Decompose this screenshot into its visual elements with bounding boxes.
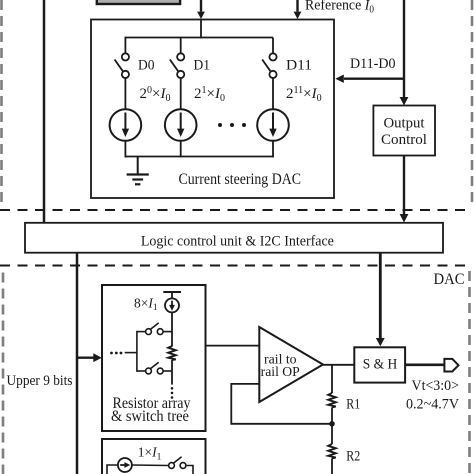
supply bar for 8xI1 [163, 292, 181, 299]
current source 1xI1 [118, 458, 132, 472]
svg-text:Vt<3:0>: Vt<3:0> [412, 378, 460, 394]
label Upper 9 bits [7, 373, 73, 389]
wire: resistor array to op-amp [206, 345, 260, 347]
wire: 1xI1 to switch [132, 464, 169, 467]
wire: node into switch tree with ellipsis [110, 352, 137, 355]
svg-text:Reference I0: Reference I0 [305, 0, 374, 15]
output control block U2 [373, 106, 435, 156]
wire: 1xI1 right leg [186, 466, 193, 474]
svg-text:211×I0: 211×I0 [286, 85, 322, 104]
switch D11 [262, 53, 276, 78]
wire: D0 source to rail [124, 141, 126, 158]
svg-text:& switch tree: & switch tree [111, 408, 189, 425]
label Logic control unit & I2C Interface [141, 233, 334, 249]
resistor R2 [328, 444, 336, 459]
switch (bottom) of switch tree [146, 362, 172, 374]
wire: feed from box top to internal bus [200, 20, 202, 39]
wire: left digital bus from top to logic unit [43, 0, 46, 223]
logic control unit box [25, 223, 443, 253]
label Output Control [381, 116, 427, 149]
dashed border: DAC region left edge (grey) [2, 273, 5, 474]
label Current steering DAC [179, 171, 302, 188]
svg-text:D11: D11 [286, 57, 312, 73]
switch D1 [170, 53, 184, 78]
label 0.2~4.7V [406, 397, 459, 413]
wire: internal top bus [125, 37, 274, 39]
dashed border: upper region right edge (grey) [471, 0, 474, 205]
label DAC [434, 271, 465, 288]
label S & H [363, 357, 398, 373]
label R1 [346, 397, 360, 413]
svg-text:D11-D0: D11-D0 [350, 56, 396, 72]
label Reference I0 [305, 0, 374, 15]
svg-text:Current steering DAC: Current steering DAC [179, 171, 302, 188]
wire: D11 branch drop [272, 38, 274, 54]
svg-text:Control: Control [381, 132, 427, 148]
label 2^0 x I0 [140, 85, 171, 104]
wire: bottom rail [125, 156, 274, 158]
switch D0 [115, 53, 129, 78]
dashed border: upper region bottom edge (black) [0, 209, 471, 211]
label 2^1 x I0 [194, 85, 225, 104]
wire: D11 switch to source [272, 78, 274, 109]
wire: switch tree left bracket [137, 331, 146, 372]
dashed border: upper region left edge (grey) [0, 0, 3, 205]
svg-text:D0: D0 [138, 57, 155, 73]
wire: D11 source to rail [272, 141, 274, 158]
svg-text:R2: R2 [346, 448, 360, 464]
resistor R1 [328, 393, 336, 408]
dashed border: DAC region top edge (black) [0, 265, 471, 267]
label Resistor array & switch tree [111, 395, 191, 425]
wire: D0 branch drop [124, 38, 126, 54]
svg-text:0.2~4.7V: 0.2~4.7V [406, 397, 459, 413]
wire: 1xI1 left leg [107, 465, 118, 474]
wire: D1 source to rail [180, 141, 182, 158]
label 1xI1 [138, 445, 162, 463]
label rail to rail OP [261, 351, 300, 378]
wire: op-amp output [323, 364, 354, 366]
label D0 [138, 57, 155, 73]
resistor array and switch tree box [102, 285, 206, 431]
wire: digital bus from top to Output Control [400, 0, 409, 106]
wire: output control to logic unit [400, 156, 409, 223]
node: feedback junction [329, 421, 335, 427]
switch (top) of switch tree [146, 323, 172, 335]
wire: 8xI1 source to switch node [171, 312, 173, 346]
svg-text:D1: D1 [194, 57, 211, 73]
op-amp U1 rail to rail [259, 327, 323, 402]
wire: R1 top leg [331, 365, 333, 393]
current steering DAC box [91, 20, 334, 199]
current source 2^0 I0 [110, 109, 142, 141]
ellipsis between branches [218, 123, 246, 127]
wire: D0 switch to source [124, 78, 126, 109]
svg-text:DAC: DAC [434, 271, 465, 288]
label D11 [286, 57, 312, 73]
svg-text:Upper 9 bits: Upper 9 bits [7, 373, 73, 389]
output pin Vt [444, 359, 458, 372]
wire: feedback path [231, 384, 332, 424]
svg-text:S & H: S & H [363, 357, 398, 373]
wire: S&H output [405, 363, 445, 366]
svg-text:rail OP: rail OP [261, 364, 300, 379]
wire: bias feed into DAC box [197, 0, 205, 19]
wire: D11-D0 bus into DAC box [335, 75, 404, 83]
resistor in switch tree [168, 346, 176, 360]
wire: D1 branch drop [180, 38, 182, 54]
label Vt<3:0> [412, 378, 460, 394]
svg-text:R1: R1 [346, 397, 360, 413]
label R2 [346, 448, 360, 464]
label 8xI1 [134, 295, 158, 313]
wire: R1 to R2 [331, 408, 333, 445]
wire: upper 9 bits arrow into resistor array [77, 353, 102, 362]
current source 8xI1 [165, 298, 179, 312]
dashed border: DAC region right edge (grey) [468, 271, 471, 474]
svg-text:Logic control unit & I2C Inter: Logic control unit & I2C Interface [141, 233, 334, 249]
ground [127, 157, 149, 185]
label 2^11 x I0 [286, 85, 322, 104]
label D11-D0 [350, 56, 396, 72]
bias block (grey, cut off at top) [97, 0, 180, 4]
wire: R2 bottom leg [331, 459, 333, 474]
lower current source box 1xI1 [102, 439, 206, 474]
wire: upper 9 bits bus down from logic unit [76, 253, 79, 474]
label D1 [194, 57, 211, 73]
sample and hold block [354, 347, 405, 382]
current source 2^1 I0 [165, 109, 197, 141]
svg-text:Output: Output [384, 116, 426, 132]
wire: D1 switch to source [180, 78, 182, 109]
wire: switch tree tail with dotted continuation [171, 360, 174, 399]
switch in 1xI1 box [169, 457, 186, 469]
current source 2^11 I0 [257, 109, 289, 141]
wire: reference current feed [294, 0, 302, 19]
wire: logic unit to S&H [376, 253, 385, 347]
